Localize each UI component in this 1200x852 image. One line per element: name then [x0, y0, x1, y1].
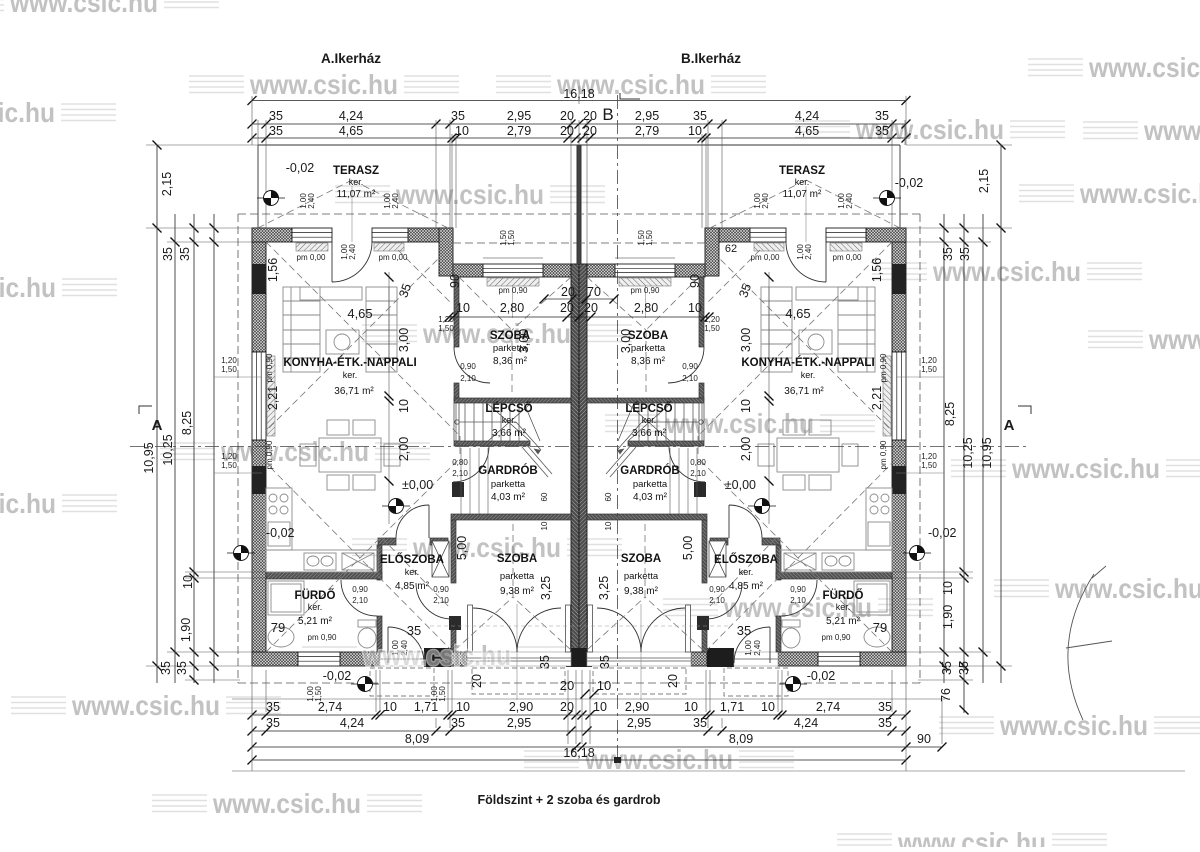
svg-text:2,00: 2,00 — [397, 437, 411, 461]
svg-text:FÜRDŐ: FÜRDŐ — [823, 589, 864, 602]
svg-text:www.csic.hu: www.csic.hu — [395, 179, 544, 210]
svg-text:2,79: 2,79 — [635, 124, 659, 138]
svg-text:2,00: 2,00 — [739, 437, 753, 461]
svg-text:2,10: 2,10 — [682, 374, 698, 383]
coffee table — [326, 330, 359, 354]
left dim line 10,95 — [156, 145, 158, 683]
svg-text:0,80: 0,80 — [452, 458, 468, 467]
svg-text:1,50: 1,50 — [221, 461, 237, 470]
svg-text:2,95: 2,95 — [627, 716, 651, 730]
watermark right edge r3 — [1019, 178, 1200, 209]
left dim line 10,25 — [174, 214, 176, 683]
svg-text:2,40: 2,40 — [845, 193, 854, 209]
door axis line — [516, 604, 518, 700]
svg-text:35: 35 — [875, 109, 889, 123]
svg-text:70: 70 — [587, 285, 601, 299]
svg-text:9,38 m²: 9,38 m² — [500, 586, 535, 597]
svg-text:20: 20 — [583, 124, 597, 138]
dining table — [319, 438, 381, 472]
svg-text:pm 0,90: pm 0,90 — [879, 353, 888, 382]
svg-text:SZOBA: SZOBA — [490, 330, 530, 342]
watermark right r4 — [872, 256, 1142, 287]
svg-text:0,90: 0,90 — [433, 585, 449, 594]
svg-text:35: 35 — [178, 247, 192, 261]
terrace step wall — [439, 228, 453, 276]
svg-text:2,95: 2,95 — [507, 109, 531, 123]
svg-text:35: 35 — [451, 109, 465, 123]
svg-text:20: 20 — [560, 124, 574, 138]
bottom dim row2 — [252, 730, 906, 732]
partition KONYHA/SZOBA west wall of szoba — [454, 277, 459, 401]
svg-text:20: 20 — [560, 109, 574, 123]
svg-text:GARDRÓB: GARDRÓB — [620, 464, 679, 477]
window axis extension — [512, 277, 514, 318]
svg-text:1,20: 1,20 — [221, 356, 237, 365]
svg-text:±0,00: ±0,00 — [725, 478, 756, 492]
level mark hall L — [382, 499, 410, 514]
sill line recessed window — [483, 257, 543, 259]
svg-text:4,65: 4,65 — [339, 124, 363, 138]
svg-text:76: 76 — [939, 688, 953, 702]
svg-text:4,65: 4,65 — [785, 306, 810, 321]
svg-text:ELŐSZOBA: ELŐSZOBA — [714, 553, 778, 566]
svg-text:4,03 m²: 4,03 m² — [633, 492, 668, 503]
svg-text:www.csic.hu: www.csic.hu — [897, 827, 1046, 847]
svg-text:ker.: ker. — [349, 177, 364, 187]
svg-text:8,25: 8,25 — [180, 411, 194, 435]
svg-text:www.csic.hu: www.csic.hu — [71, 690, 220, 721]
shower — [268, 581, 304, 615]
svg-text:2,15: 2,15 — [160, 172, 174, 196]
svg-text:-0,02: -0,02 — [286, 161, 315, 175]
svg-text:10: 10 — [397, 399, 411, 413]
svg-text:10: 10 — [688, 124, 702, 138]
top dim line row3 — [252, 137, 906, 139]
svg-text:0,90: 0,90 — [352, 585, 368, 594]
watermark right bottom — [939, 710, 1200, 741]
svg-text:35: 35 — [693, 109, 707, 123]
svg-text:1,50: 1,50 — [438, 324, 454, 333]
section line A-A — [130, 406, 1031, 447]
svg-text:pm 0,00: pm 0,00 — [379, 253, 408, 262]
inner dim line szoba row — [449, 316, 709, 318]
section axis B — [614, 93, 640, 763]
svg-text:10: 10 — [739, 399, 753, 413]
svg-text:10: 10 — [456, 700, 470, 714]
recessed north wall SZOBA section — [453, 264, 579, 277]
watermark r2 right — [795, 114, 1065, 145]
french double doors — [473, 608, 561, 652]
svg-text:www.csic.hu: www.csic.hu — [9, 0, 158, 18]
svg-text:-0,02: -0,02 — [266, 526, 295, 540]
svg-text:www.csic.hu: www.csic.hu — [1088, 52, 1200, 83]
svg-text:2,40: 2,40 — [804, 244, 813, 260]
watermark bottom left — [11, 690, 281, 721]
west wall pillar mid — [252, 466, 266, 494]
svg-text:Földszint + 2 szoba és gardrob: Földszint + 2 szoba és gardrob — [477, 793, 660, 807]
wc — [358, 620, 376, 648]
watermark left edge r2 — [0, 97, 116, 128]
svg-text:www.csic.hu: www.csic.hu — [1011, 453, 1160, 484]
svg-text:20: 20 — [583, 109, 597, 123]
window west wall — [252, 352, 266, 440]
svg-text:ker.: ker. — [801, 370, 816, 380]
watermark bottom center — [524, 744, 794, 775]
right margin arc — [1066, 566, 1112, 720]
svg-text:pm 0,00: pm 0,00 — [833, 253, 862, 262]
svg-text:62: 62 — [725, 243, 737, 255]
svg-text:2,10: 2,10 — [460, 374, 476, 383]
svg-text:2,40: 2,40 — [391, 193, 400, 209]
svg-text:2,74: 2,74 — [816, 700, 840, 714]
svg-text:35: 35 — [161, 247, 175, 261]
svg-text:2,40: 2,40 — [348, 244, 357, 260]
watermark over szoba-south A — [352, 532, 622, 563]
svg-text:35: 35 — [269, 124, 283, 138]
svg-text:36,71 m²: 36,71 m² — [334, 386, 374, 397]
level mark entry R — [779, 677, 807, 692]
svg-text:4,85 m²: 4,85 m² — [395, 581, 430, 592]
top extension lines — [252, 96, 906, 264]
svg-text:ELŐSZOBA: ELŐSZOBA — [380, 553, 444, 566]
shaft box — [432, 541, 449, 577]
svg-text:5,00: 5,00 — [681, 536, 695, 560]
right horizontal extension lines — [892, 145, 1012, 680]
svg-text:4,03 m²: 4,03 m² — [491, 492, 526, 503]
watermark over south wall A — [302, 640, 572, 671]
overhang dashed outline — [238, 214, 579, 683]
bottom dim row3 8,09 — [252, 746, 942, 748]
svg-text:pm 0,90: pm 0,90 — [822, 633, 851, 642]
svg-text:pm 0,90: pm 0,90 — [265, 440, 274, 469]
svg-text:2,95: 2,95 — [507, 716, 531, 730]
svg-text:35: 35 — [269, 109, 283, 123]
svg-text:parketta: parketta — [631, 343, 666, 354]
svg-text:ker.: ker. — [836, 602, 851, 612]
svg-text:pm 0,90: pm 0,90 — [265, 353, 274, 382]
bottom dim row4 16,18 — [252, 759, 906, 761]
svg-text:11,07 m²: 11,07 m² — [783, 189, 822, 200]
svg-text:ker.: ker. — [343, 370, 358, 380]
svg-text:10: 10 — [455, 124, 469, 138]
svg-text:www.csic.hu: www.csic.hu — [212, 788, 361, 819]
right dim line outer35 — [943, 214, 945, 683]
svg-text:-0,02: -0,02 — [895, 176, 924, 190]
MIRROR — [577, 145, 921, 700]
svg-text:2,80: 2,80 — [634, 301, 658, 315]
svg-text:www.csic.hu: www.csic.hu — [1054, 573, 1200, 604]
svg-text:LÉPCSŐ: LÉPCSŐ — [485, 402, 532, 415]
entry door — [388, 627, 424, 663]
svg-text:2,40: 2,40 — [761, 193, 770, 209]
terrace divider stub — [577, 145, 582, 264]
french door jambs — [468, 605, 571, 652]
svg-text:www.csic.hu: www.csic.hu — [999, 710, 1148, 741]
svg-text:20: 20 — [666, 674, 680, 688]
svg-text:A: A — [1004, 417, 1015, 434]
center mark 16,18 — [578, 86, 580, 104]
svg-text:1,50: 1,50 — [507, 230, 516, 246]
svg-text:20: 20 — [584, 301, 598, 315]
south wall entry pillar — [424, 648, 451, 667]
svg-text:2,15: 2,15 — [977, 169, 991, 193]
svg-text:20: 20 — [560, 700, 574, 714]
south rear wall — [252, 652, 467, 666]
kitchen counter south with sink — [266, 550, 378, 572]
svg-text:10,95: 10,95 — [980, 437, 994, 468]
svg-text:www.csic.hu: www.csic.hu — [1148, 324, 1200, 355]
svg-text:20: 20 — [470, 674, 484, 688]
svg-text:10: 10 — [597, 678, 611, 693]
svg-text:www.csic.hu: www.csic.hu — [584, 744, 733, 775]
svg-text:10: 10 — [456, 301, 470, 315]
svg-text:79: 79 — [873, 620, 887, 635]
watermark over lepcso B — [605, 408, 875, 439]
svg-text:ker.: ker. — [405, 567, 420, 577]
svg-text:35: 35 — [958, 247, 972, 261]
svg-text:2,21: 2,21 — [266, 386, 280, 410]
entry step dashed — [370, 668, 434, 696]
stairs walk line — [455, 420, 541, 455]
watermark bottom edge partial — [837, 827, 1107, 852]
svg-text:5,21 m²: 5,21 m² — [298, 616, 333, 627]
svg-text:35: 35 — [693, 716, 707, 730]
partition bath north — [266, 572, 382, 579]
window north right 1,00 — [372, 228, 408, 242]
svg-text:35: 35 — [878, 700, 892, 714]
svg-text:35: 35 — [266, 716, 280, 730]
svg-text:2,10: 2,10 — [452, 469, 468, 478]
svg-text:1,90: 1,90 — [179, 618, 193, 642]
watermark right edge r5 — [1088, 324, 1200, 355]
svg-text:parketta: parketta — [624, 571, 659, 582]
svg-text:8,36 m²: 8,36 m² — [631, 356, 666, 367]
svg-text:-0,02: -0,02 — [928, 526, 957, 540]
svg-text:2,10: 2,10 — [790, 596, 806, 605]
svg-text:2,10: 2,10 — [433, 596, 449, 605]
svg-text:2,80: 2,80 — [500, 301, 524, 315]
tv shelf — [300, 287, 362, 300]
svg-text:-0,02: -0,02 — [807, 669, 836, 683]
svg-text:10: 10 — [604, 521, 613, 530]
svg-text:www.csic.hu: www.csic.hu — [0, 97, 55, 128]
bottom thin line — [232, 698, 945, 700]
svg-text:FÜRDŐ: FÜRDŐ — [295, 589, 336, 602]
svg-text:8,09: 8,09 — [405, 732, 429, 746]
svg-text:35: 35 — [878, 716, 892, 730]
top dim line total 16,18 — [252, 100, 906, 102]
svg-text:SZOBA: SZOBA — [628, 330, 668, 342]
svg-text:35: 35 — [175, 661, 189, 675]
svg-text:ker.: ker. — [739, 567, 754, 577]
svg-text:KONYHA-ÉTK.-NAPPALI: KONYHA-ÉTK.-NAPPALI — [741, 356, 874, 369]
svg-text:B.Ikerház: B.Ikerház — [681, 51, 741, 66]
watermark over eloszoba B — [663, 592, 933, 623]
west outer wall — [252, 228, 266, 666]
radiator north window left — [296, 243, 328, 251]
radiator north window right — [374, 243, 404, 251]
watermark top-right corner — [1028, 52, 1200, 83]
svg-text:8,09: 8,09 — [729, 732, 753, 746]
svg-text:35: 35 — [266, 700, 280, 714]
level mark hall R — [748, 499, 776, 514]
radiator block eloszoba — [449, 616, 461, 630]
svg-text:1,90: 1,90 — [941, 605, 955, 629]
watermark right margin r6 — [951, 453, 1200, 484]
svg-text:35: 35 — [940, 661, 954, 675]
svg-text:ker.: ker. — [502, 415, 517, 425]
svg-text:ker.: ker. — [642, 415, 657, 425]
watermark left edge r6 — [0, 488, 117, 519]
svg-text:KONYHA-ÉTK.-NAPPALI: KONYHA-ÉTK.-NAPPALI — [283, 356, 416, 369]
svg-text:10,25: 10,25 — [161, 434, 175, 465]
svg-text:www.csic.hu: www.csic.hu — [1079, 178, 1200, 209]
svg-text:35: 35 — [538, 655, 552, 669]
svg-text:11,07 m²: 11,07 m² — [337, 189, 376, 200]
svg-text:4,24: 4,24 — [794, 716, 818, 730]
svg-text:1,50: 1,50 — [921, 365, 937, 374]
svg-text:10: 10 — [761, 700, 775, 714]
svg-text:SZOBA: SZOBA — [621, 553, 661, 565]
partition furdo east wall — [377, 545, 382, 652]
level mark terrace L — [257, 191, 285, 206]
svg-text:3,25: 3,25 — [539, 576, 553, 600]
svg-text:1,20: 1,20 — [704, 315, 720, 324]
svg-text:±0,00: ±0,00 — [402, 478, 433, 492]
svg-text:10,95: 10,95 — [142, 442, 156, 473]
svg-text:35: 35 — [737, 623, 751, 638]
level mark west wall — [227, 546, 255, 561]
svg-text:35: 35 — [451, 716, 465, 730]
svg-text:35: 35 — [598, 655, 612, 669]
svg-text:1,50: 1,50 — [438, 686, 447, 702]
svg-text:2,10: 2,10 — [709, 596, 725, 605]
svg-text:1,20: 1,20 — [921, 356, 937, 365]
svg-text:10,25: 10,25 — [961, 437, 975, 468]
gardrob treads — [461, 448, 488, 514]
svg-text:GARDRÓB: GARDRÓB — [478, 464, 537, 477]
svg-text:LÉPCSŐ: LÉPCSŐ — [625, 402, 672, 415]
svg-text:10: 10 — [181, 575, 195, 589]
svg-text:www.csic.hu: www.csic.hu — [220, 436, 369, 467]
svg-text:www.csic.hu: www.csic.hu — [362, 640, 511, 671]
window south bath — [298, 652, 340, 666]
terrace door axis — [351, 186, 353, 242]
svg-text:8,36 m²: 8,36 m² — [493, 356, 528, 367]
svg-text:1,50: 1,50 — [645, 230, 654, 246]
left dim line chain — [193, 214, 195, 683]
svg-text:pm 0,90: pm 0,90 — [879, 440, 888, 469]
bottom extension lines — [252, 667, 942, 771]
svg-text:90: 90 — [917, 732, 931, 746]
svg-text:35: 35 — [957, 661, 971, 675]
watermark top-left partial — [0, 0, 219, 18]
door bath — [341, 580, 377, 616]
gardrob niche block — [452, 482, 464, 497]
svg-text:parketta: parketta — [493, 343, 528, 354]
svg-text:ker.: ker. — [795, 177, 810, 187]
svg-text:1,00: 1,00 — [744, 640, 753, 656]
stairs west wall — [454, 403, 459, 441]
svg-text:9,38 m²: 9,38 m² — [624, 586, 659, 597]
svg-text:1,50: 1,50 — [314, 686, 323, 702]
svg-text:20: 20 — [560, 301, 574, 315]
svg-text:79: 79 — [271, 620, 285, 635]
svg-text:16,18: 16,18 — [563, 746, 594, 760]
svg-text:www.csic.hu: www.csic.hu — [0, 272, 56, 303]
garden steps dashed — [472, 668, 565, 694]
right dim line 10,25 — [982, 214, 984, 683]
svg-text:4,24: 4,24 — [795, 109, 819, 123]
french threshold — [467, 652, 571, 666]
west wall pillar upper — [252, 264, 266, 294]
svg-text:2,40: 2,40 — [753, 640, 762, 656]
entry threshold — [380, 652, 424, 666]
svg-text:4,24: 4,24 — [339, 109, 363, 123]
svg-text:3,25: 3,25 — [597, 576, 611, 600]
svg-text:1,20: 1,20 — [921, 452, 937, 461]
svg-text:0,90: 0,90 — [790, 585, 806, 594]
bottom dim row1 — [252, 714, 906, 716]
svg-text:2,90: 2,90 — [625, 700, 649, 714]
top dim line row2 — [252, 123, 906, 125]
watermark right edge r2 — [1083, 115, 1200, 146]
door gardrob — [453, 446, 489, 482]
partition eloszoba north — [378, 538, 448, 545]
svg-text:35: 35 — [941, 247, 955, 261]
svg-text:36,71 m²: 36,71 m² — [784, 386, 824, 397]
svg-text:8,25: 8,25 — [943, 402, 957, 426]
window recessed 1,50 — [483, 264, 543, 277]
svg-text:20: 20 — [560, 678, 574, 693]
svg-text:A.Ikerház: A.Ikerház — [321, 51, 381, 66]
svg-text:10: 10 — [540, 521, 549, 530]
watermark over szoba A — [362, 318, 632, 349]
svg-text:2,10: 2,10 — [352, 596, 368, 605]
sofa right — [366, 287, 397, 372]
svg-text:90: 90 — [688, 274, 702, 288]
svg-text:TERASZ: TERASZ — [779, 165, 825, 177]
left dim line outer35 — [213, 214, 215, 683]
door szoba south — [416, 583, 452, 619]
svg-text:www.csic.hu: www.csic.hu — [0, 488, 56, 519]
svg-text:1,50: 1,50 — [921, 461, 937, 470]
right dim line chain — [963, 214, 965, 713]
svg-text:3,00: 3,00 — [397, 328, 411, 352]
svg-text:10: 10 — [688, 301, 702, 315]
svg-text:4,65: 4,65 — [795, 124, 819, 138]
svg-text:-0,02: -0,02 — [323, 669, 352, 683]
svg-text:4,65: 4,65 — [347, 306, 372, 321]
svg-text:0,90: 0,90 — [682, 362, 698, 371]
svg-text:pm 0,00: pm 0,00 — [297, 253, 326, 262]
svg-text:2,79: 2,79 — [507, 124, 531, 138]
sofa left — [283, 287, 320, 372]
svg-text:TERASZ: TERASZ — [333, 165, 379, 177]
svg-text:2,95: 2,95 — [635, 109, 659, 123]
watermark left edge r4 — [0, 272, 117, 303]
svg-text:1,71: 1,71 — [720, 700, 744, 714]
svg-text:5,21 m²: 5,21 m² — [826, 616, 861, 627]
svg-text:10: 10 — [383, 700, 397, 714]
svg-text:90: 90 — [448, 274, 462, 288]
svg-text:parketta: parketta — [491, 479, 526, 490]
svg-text:pm 0,90: pm 0,90 — [631, 286, 660, 295]
svg-text:16,18: 16,18 — [563, 87, 594, 101]
svg-text:1,50: 1,50 — [704, 324, 720, 333]
svg-text:35: 35 — [407, 623, 421, 638]
partition SZOBA south — [454, 398, 571, 403]
